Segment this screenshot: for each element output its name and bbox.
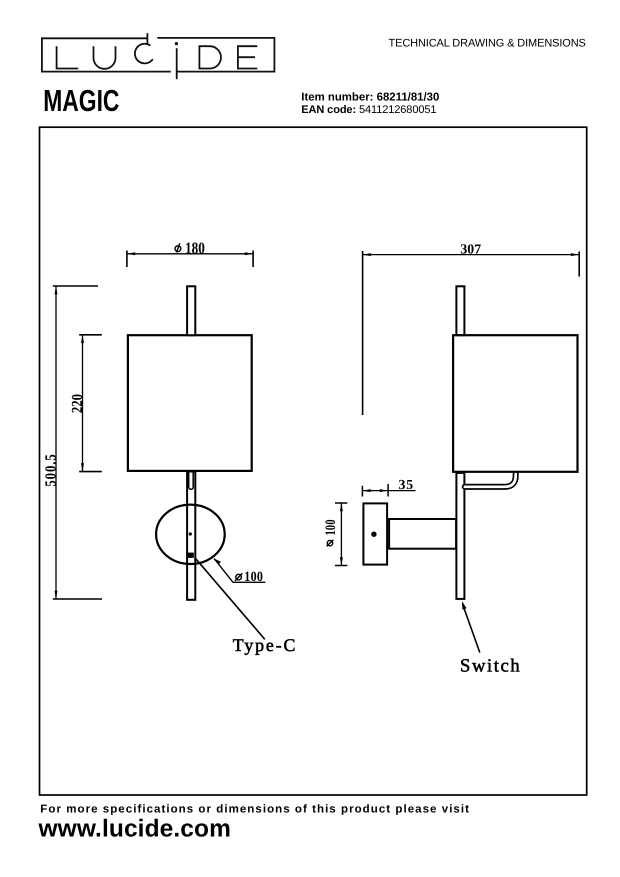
svg-text:For more specifications or dim: For more specifications or dimensions of… [40, 804, 470, 816]
svg-text:Item number: 68211/81/30: Item number: 68211/81/30 [301, 91, 439, 103]
side view arm tube [465, 474, 516, 487]
svg-text:100: 100 [244, 569, 263, 585]
dimension phi180 [127, 238, 253, 267]
dimension phi100 side [323, 503, 347, 566]
leader Switch [460, 601, 521, 677]
svg-text:180: 180 [185, 238, 205, 257]
svg-text:35: 35 [399, 477, 414, 492]
svg-text:220: 220 [69, 394, 86, 413]
logo letter C with cord stem [135, 33, 153, 63]
logo letter E [238, 46, 257, 68]
logo letter i with descender [175, 42, 178, 45]
side view screw dot [371, 532, 376, 537]
side view shade [453, 335, 577, 472]
front view screw dot [189, 532, 192, 535]
logo letter D [199, 46, 221, 68]
logo letter U [94, 46, 116, 69]
leader phi100 front [214, 559, 265, 586]
front view wall plate ellipse [156, 505, 225, 564]
side view connector [389, 519, 456, 549]
dimension 35 [362, 477, 415, 497]
leader Type-C [196, 559, 297, 655]
svg-text:MAGIC: MAGIC [43, 84, 119, 118]
svg-text:Type-C: Type-C [233, 635, 297, 655]
svg-text:EAN code: 5411212680051: EAN code: 5411212680051 [301, 104, 436, 116]
svg-text:307: 307 [460, 242, 481, 257]
dimension 307 [363, 242, 580, 415]
Lucide logo box [42, 38, 275, 72]
front view shade [128, 335, 252, 471]
front view Type-C port [187, 553, 194, 558]
logo letter L [57, 46, 79, 68]
svg-text:Switch: Switch [460, 656, 521, 677]
front view arm end capsule [189, 473, 194, 490]
svg-text:www.lucide.com: www.lucide.com [38, 816, 231, 843]
svg-text:100: 100 [323, 519, 339, 535]
dimension 220 [69, 335, 102, 472]
front view rod upper [187, 286, 195, 335]
front view rod lower [187, 472, 195, 600]
side view rod upper [456, 286, 464, 335]
svg-text:TECHNICAL DRAWING & DIMENSIONS: TECHNICAL DRAWING & DIMENSIONS [389, 38, 586, 50]
dimension 500.5 [42, 286, 102, 599]
side view wall box [363, 503, 387, 564]
side view rod lower [456, 473, 464, 599]
page frame [40, 127, 587, 795]
svg-text:500.5: 500.5 [42, 453, 59, 486]
